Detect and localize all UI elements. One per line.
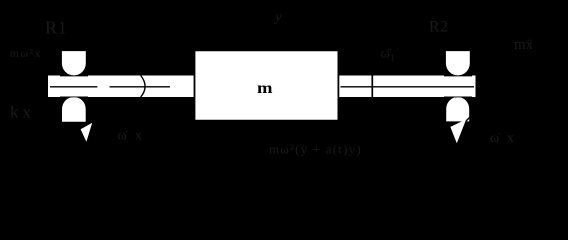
svg-text:x: x xyxy=(135,128,142,143)
svg-text:mω²x: mω²x xyxy=(10,48,42,60)
svg-text:x: x xyxy=(23,102,32,121)
svg-text:mω²(ÿ + a(t)y): mω²(ÿ + a(t)y) xyxy=(269,142,362,157)
svg-text:ω̇: ω̇ xyxy=(490,131,500,146)
svg-text:R1: R1 xyxy=(45,18,68,38)
svg-text:R2: R2 xyxy=(429,19,449,36)
svg-text:ω̈₁: ω̈₁ xyxy=(381,47,396,62)
svg-text:x: x xyxy=(507,131,514,146)
svg-text:mẍ: mẍ xyxy=(514,37,534,53)
svg-text:y: y xyxy=(273,10,282,25)
svg-text:ω̇: ω̇ xyxy=(118,128,128,143)
svg-text:m: m xyxy=(257,80,273,97)
svg-text:k: k xyxy=(10,102,19,121)
